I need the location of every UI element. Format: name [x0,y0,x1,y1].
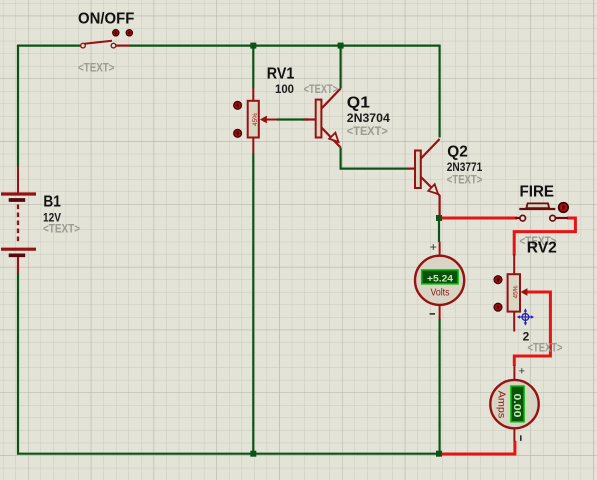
junction node at bottom rail [436,451,442,457]
switch FIRE right stub [555,217,568,219]
terminal dot RV2 lower [494,303,502,311]
terminal dot RV1 lower [234,129,242,137]
wire: Q2 emitter junction to voltmeter top [438,219,440,242]
wire: left rail from top corner down to battery top pin [17,46,19,167]
wire: Q1 collector riser [340,46,342,89]
svg-text:<TEXT>: <TEXT> [78,61,115,75]
wire: top rail from battery to switch [18,45,81,46]
battery B1 plate short bottom [9,253,26,257]
wire: top rail from switch to top-right corner, down to Q2 collector [130,46,440,138]
ammeter body [490,380,538,428]
terminal dot FIRE [559,203,569,213]
wire: left rail lower + bottom rail [18,273,439,454]
ammeter minus sign [520,435,522,441]
terminal dot RV2 upper [494,276,502,284]
transistor Q1 collector line [322,89,341,109]
potentiometer RV2 bottom pin [513,311,515,332]
switch FIRE right contact [550,215,556,221]
origin marker blue crosshair [517,308,534,325]
switch FIRE left contact [520,215,526,221]
transistor Q2 emitter pin [439,195,441,216]
ammeter bottom pin [513,428,515,442]
svg-text:B1: B1 [43,194,61,211]
svg-text:ON/OFF: ON/OFF [78,11,135,28]
transistor Q1 base bar [316,100,322,138]
switch ON/OFF lever [85,41,113,44]
transistor Q2 collector line [421,139,440,159]
junction node at Q1 collector top [338,43,344,49]
potentiometer RV1 body [248,101,259,138]
voltmeter top pin [439,242,441,257]
transistor Q1 base pin [303,118,316,120]
svg-text:Volts: Volts [431,287,450,299]
wire: bright red from Q2 emitter junction to FIRE switch [441,217,518,220]
wire: RV1 bottom riser to bottom rail [252,154,254,453]
switch ON/OFF right contact [111,43,116,48]
terminal dot RV1 upper [234,101,242,109]
junction node at RV1 top [250,43,256,49]
battery B1 plate long top [1,192,36,195]
transistor Q2 base pin [408,168,415,170]
transistor Q1 emitter line [322,128,341,148]
svg-text:RV2: RV2 [527,239,557,256]
svg-text:2N3704: 2N3704 [347,111,390,125]
ammeter Amps label [496,391,508,419]
svg-text:<TEXT>: <TEXT> [43,222,80,236]
battery B1 dashed middle [17,205,19,244]
svg-text:+5.24: +5.24 [427,273,454,284]
junction node at Q2 emitter [436,215,442,221]
svg-text:RV1: RV1 [267,66,295,83]
potentiometer RV2 top pin [513,254,515,275]
voltmeter body [415,256,464,305]
battery B1 top pin [17,167,19,194]
voltmeter minus sign [430,313,435,315]
potentiometer RV2 45% text [512,285,519,298]
switch ON/OFF right stub [116,44,130,46]
voltmeter display [422,270,458,284]
voltmeter bottom pin [439,305,441,320]
transistor Q2 emitter arrow [428,184,438,194]
svg-text:+: + [519,365,525,377]
svg-text:+: + [430,240,437,254]
transistor Q2 emitter line [421,177,440,196]
battery B1 bottom pin [17,257,19,274]
svg-text:FIRE: FIRE [520,184,555,201]
potentiometer RV1 45% text [252,113,259,126]
ammeter reading 0.00 [511,394,522,419]
switch FIRE actuator bar [519,208,555,210]
potentiometer RV1 top pin [252,87,254,102]
wire: bright red ammeter bottom to bottom rail junction [440,441,515,454]
transistor Q2 base bar [415,151,421,189]
wire: voltmeter bottom to bottom rail [439,319,441,453]
junction node at RV1 bottom riser and bottom rail [250,451,256,457]
wire: RV1 top riser [252,46,254,88]
svg-text:100: 100 [275,82,294,96]
switch FIRE cap [526,203,549,208]
potentiometer RV1 wiper lead [266,119,278,121]
battery B1 plate short top [9,198,26,202]
svg-text:0.00: 0.00 [511,394,522,419]
switch ON/OFF actuator dot left [113,30,119,36]
transistor Q1 emitter arrow [329,133,338,142]
potentiometer RV2 body [508,274,520,311]
svg-text:<TEXT>: <TEXT> [304,82,339,96]
svg-text:<TEXT>: <TEXT> [447,173,483,187]
battery B1 plate long bottom [1,248,36,251]
ammeter display [511,386,524,422]
svg-text:45%: 45% [252,113,259,126]
svg-text:45%: 45% [512,285,519,298]
ammeter top pin [513,366,515,381]
potentiometer RV1 bottom pin [252,137,254,154]
wire: Q1 emitter to Q2 base [341,148,409,169]
svg-text:<TEXT>: <TEXT> [528,341,563,355]
wire: bright red RV2 wiper to ammeter top [514,292,550,366]
switch FIRE left stub [515,217,520,219]
svg-text:Amps: Amps [496,391,508,419]
svg-text:Q1: Q1 [347,95,370,112]
svg-text:<TEXT>: <TEXT> [347,124,388,138]
switch ON/OFF left contact [81,43,86,48]
wire: RV1 wiper to Q1 base [277,118,309,120]
svg-text:Q2: Q2 [447,143,468,160]
potentiometer RV1 wiper arrow [260,116,267,124]
potentiometer RV2 wiper arrow [521,288,528,296]
switch ON/OFF actuator dot right [126,30,132,36]
wire: bright red from FIRE switch to RV2 top [514,218,575,256]
